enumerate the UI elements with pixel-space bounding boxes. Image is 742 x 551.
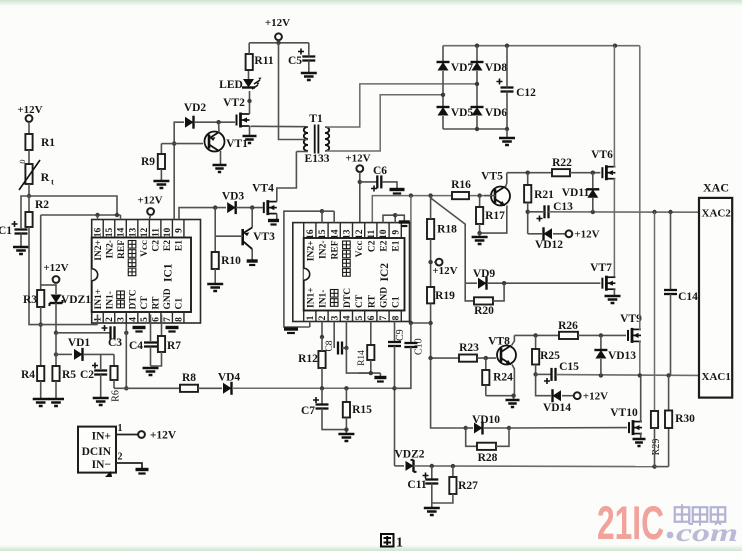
node <box>533 333 537 337</box>
svg-text:VD13: VD13 <box>608 350 636 362</box>
capacitor C13 <box>543 205 545 218</box>
svg-text:CT: CT <box>140 296 150 310</box>
svg-text:C14: C14 <box>678 291 698 303</box>
wire <box>20 234 22 247</box>
wire VDZ1 to R5 <box>55 333 57 366</box>
svg-text:R4: R4 <box>21 369 35 381</box>
svg-text:14: 14 <box>117 228 127 238</box>
svg-text:IN1-: IN1- <box>319 290 329 308</box>
resistor R1 <box>25 134 32 150</box>
svg-text:VT10: VT10 <box>610 407 638 419</box>
svg-text:Vᴄᴄ: Vᴄᴄ <box>355 240 365 257</box>
wire VD14 branch <box>536 374 551 395</box>
wire VT6 source <box>614 179 615 277</box>
svg-text:R29: R29 <box>651 439 662 456</box>
svg-text:IN2-: IN2- <box>319 241 329 259</box>
wire <box>509 427 627 429</box>
wire C10 drop <box>410 196 412 323</box>
svg-text:VD4: VD4 <box>218 372 241 384</box>
svg-text:REF: REF <box>117 240 127 259</box>
resistor R3 <box>37 290 44 307</box>
wire <box>570 172 600 174</box>
wire <box>654 428 656 467</box>
wire VT1 collector <box>218 122 220 132</box>
svg-text:VT3: VT3 <box>253 231 275 243</box>
wire R17 top <box>479 196 481 207</box>
wire <box>308 61 310 73</box>
svg-text:+12V: +12V <box>265 17 290 29</box>
node <box>250 205 254 209</box>
wire <box>55 381 57 398</box>
node <box>652 464 656 468</box>
wire VT6 drain <box>614 46 615 167</box>
resistor R16 <box>452 192 469 199</box>
wire <box>40 307 42 366</box>
wire <box>485 385 487 396</box>
wire <box>150 315 152 342</box>
op-amp IC2 body <box>304 238 405 311</box>
diode VD8 <box>472 62 483 71</box>
svg-text:8: 8 <box>174 317 184 322</box>
wire R8 bus <box>114 387 180 389</box>
wire <box>430 239 432 287</box>
wire VT10 gate line <box>431 358 464 428</box>
resistor R18 <box>427 219 434 239</box>
svg-text:R14: R14 <box>357 350 367 366</box>
svg-text:15: 15 <box>318 229 328 239</box>
svg-text:R24: R24 <box>493 372 513 384</box>
transistor VT1 <box>205 132 225 152</box>
wire <box>536 373 551 375</box>
svg-text:R21: R21 <box>534 189 554 201</box>
wire IC1 pin9 riser to VD3 <box>179 208 226 220</box>
wire <box>150 347 152 367</box>
ground <box>472 237 488 244</box>
diode VD11 <box>592 173 594 188</box>
diode VD13 <box>600 335 602 349</box>
transistor VT6 <box>601 167 603 178</box>
svg-text:C10: C10 <box>414 338 425 355</box>
wire C2 branch <box>100 354 102 369</box>
svg-text:VD12: VD12 <box>535 239 563 251</box>
wire VT1 base <box>174 143 203 145</box>
svg-text:VD2: VD2 <box>184 102 207 114</box>
resistor R14 <box>367 345 374 360</box>
svg-text:+12V: +12V <box>150 430 177 442</box>
node <box>95 213 99 217</box>
capacitor C15 <box>550 368 552 381</box>
svg-text:IN+: IN+ <box>92 431 111 443</box>
svg-text:R16: R16 <box>451 179 471 191</box>
watermark dot <box>667 532 674 539</box>
svg-text:R23: R23 <box>459 342 479 354</box>
svg-text:C11: C11 <box>407 479 426 491</box>
wire <box>431 484 433 508</box>
svg-text:9: 9 <box>174 228 184 233</box>
svg-text:VD9: VD9 <box>473 268 496 280</box>
wire <box>248 43 250 54</box>
resistor R22 <box>552 169 570 176</box>
svg-text:16: 16 <box>94 228 104 238</box>
svg-text:DCIN: DCIN <box>82 446 112 458</box>
svg-text:DTC: DTC <box>343 288 353 308</box>
wire R12 stub <box>321 322 323 338</box>
svg-text:VD14: VD14 <box>543 402 571 414</box>
wire C10 link <box>411 322 431 324</box>
wire <box>40 381 42 398</box>
wire <box>506 46 508 88</box>
wire <box>236 207 263 209</box>
node <box>464 426 468 430</box>
ground <box>143 368 159 375</box>
wire <box>322 409 346 430</box>
resistor R23 <box>459 355 477 362</box>
svg-text:IC1: IC1 <box>163 263 175 282</box>
resistor R7 <box>158 336 165 352</box>
wire <box>359 172 361 223</box>
svg-text:11: 11 <box>151 228 161 237</box>
node <box>393 213 397 217</box>
svg-text:IN2+: IN2+ <box>306 241 316 262</box>
diode VD6 <box>472 107 483 116</box>
node <box>441 93 445 97</box>
node <box>638 373 642 377</box>
wire diagonal to VD9 branch <box>431 196 466 284</box>
svg-text:9: 9 <box>391 230 401 235</box>
svg-text:VT7: VT7 <box>590 262 612 274</box>
node <box>320 335 324 339</box>
svg-text:VD6: VD6 <box>485 107 508 119</box>
node <box>39 322 43 326</box>
svg-text:10: 10 <box>379 229 389 239</box>
node <box>451 464 455 468</box>
node +12V (VD12) <box>566 230 573 237</box>
svg-text:C9: C9 <box>395 329 406 341</box>
wire VT7 source <box>614 289 615 295</box>
wire <box>395 215 404 221</box>
wire VT5 collector <box>506 173 507 187</box>
svg-text:E133: E133 <box>305 153 330 165</box>
wire VD1 line <box>56 353 72 355</box>
resistor R19 <box>427 287 434 303</box>
wire <box>342 347 346 349</box>
wire <box>160 169 162 180</box>
node <box>599 333 603 337</box>
wire <box>434 261 436 263</box>
wire VT3 base <box>215 235 243 237</box>
svg-text:C2: C2 <box>152 240 162 252</box>
svg-text:C1: C1 <box>0 225 12 237</box>
wire <box>506 129 508 137</box>
wire <box>149 215 150 220</box>
node <box>591 171 595 175</box>
svg-text:R22: R22 <box>552 157 572 169</box>
wire VT3 collector drop <box>251 208 253 228</box>
ground (IC1 pins 4-5) <box>133 326 146 329</box>
node A <box>27 194 31 198</box>
svg-text:GND: GND <box>163 288 173 309</box>
resistor R28 <box>477 443 496 450</box>
node <box>477 193 481 197</box>
node <box>213 205 217 209</box>
resistor R2 <box>25 212 32 227</box>
node <box>475 82 479 86</box>
svg-text:R10: R10 <box>221 255 241 267</box>
wire <box>55 283 57 294</box>
svg-text:E2: E2 <box>380 240 390 251</box>
wire R30 stub <box>668 375 670 410</box>
transistor VT10 <box>628 422 630 433</box>
ground <box>247 259 258 262</box>
svg-text:3: 3 <box>330 315 340 320</box>
node <box>344 427 348 431</box>
svg-text:R9: R9 <box>141 156 155 168</box>
wire VD12 branch <box>528 233 542 235</box>
svg-text:R17: R17 <box>485 210 505 222</box>
wire +12V collector bus <box>372 196 495 223</box>
wire <box>160 144 162 154</box>
wire R28 branch <box>466 428 477 446</box>
wire E2 riser <box>174 122 184 219</box>
svg-text:VD3: VD3 <box>222 191 245 203</box>
wire <box>442 71 444 107</box>
wire <box>528 211 545 213</box>
wire T1 primary top <box>306 126 308 128</box>
wire VT10 source <box>641 434 642 438</box>
wire <box>214 269 216 283</box>
op-amp IC1 body <box>92 238 191 313</box>
svg-text:R2: R2 <box>35 199 49 211</box>
svg-text:R25: R25 <box>540 350 560 362</box>
capacitor C5 <box>298 49 304 55</box>
svg-text:7: 7 <box>379 315 389 320</box>
wire <box>321 368 323 388</box>
wire <box>345 322 347 349</box>
ground <box>213 165 227 172</box>
wire VT3 emitter <box>251 249 253 260</box>
wire bottom bus <box>414 465 655 468</box>
resistor R17 <box>476 207 483 224</box>
svg-text:com: com <box>676 520 738 547</box>
svg-text:13: 13 <box>343 229 353 239</box>
node <box>502 281 506 285</box>
wire R24 branch <box>485 358 487 370</box>
node <box>477 231 481 235</box>
wire C9 node to VDZ2 <box>394 388 396 466</box>
wire <box>113 380 115 388</box>
diode VD4 <box>223 383 232 394</box>
wire <box>655 466 669 468</box>
node <box>344 386 348 390</box>
wire R15 branch <box>345 388 347 402</box>
wire <box>345 418 347 434</box>
node <box>613 44 617 48</box>
node <box>172 141 176 145</box>
node <box>124 386 128 390</box>
wire <box>308 43 310 57</box>
wire <box>161 315 163 337</box>
wire T1 center tap to +12V <box>279 43 309 140</box>
wire <box>430 196 432 219</box>
svg-text:+12V: +12V <box>345 153 370 165</box>
node <box>591 210 595 214</box>
svg-text:12: 12 <box>355 229 365 239</box>
wire R2 to pin1 line <box>29 227 31 325</box>
svg-text:REF: REF <box>331 240 341 259</box>
svg-text:1: 1 <box>396 536 403 551</box>
ground <box>338 434 354 441</box>
transistor VT9 <box>627 330 629 341</box>
svg-text:VT2: VT2 <box>223 97 245 109</box>
node <box>428 193 432 197</box>
zener diode VDZ2 <box>395 465 405 467</box>
svg-text:6: 6 <box>367 315 377 320</box>
svg-text:R20: R20 <box>474 305 494 317</box>
node <box>358 180 362 184</box>
wire <box>151 352 162 366</box>
wire <box>527 203 529 234</box>
svg-text:Vᴄᴄ: Vᴄᴄ <box>140 240 150 257</box>
wire VT5 base <box>484 195 496 197</box>
wire IC2 feedback loop <box>284 211 322 327</box>
svg-text:R11: R11 <box>254 55 273 67</box>
svg-text:RT: RT <box>367 294 377 308</box>
svg-text:+12V: +12V <box>432 265 457 277</box>
node +12V (R18/R19) <box>436 259 443 266</box>
wire <box>535 365 537 375</box>
svg-text:+12V: +12V <box>17 104 42 116</box>
node <box>392 386 396 390</box>
resistor R4 <box>37 366 44 381</box>
resistor R11 <box>246 54 253 70</box>
svg-text:21IC: 21IC <box>597 496 664 549</box>
resistor R27 <box>449 477 456 494</box>
svg-text:2: 2 <box>118 452 123 463</box>
svg-text:E1: E1 <box>392 240 402 251</box>
ground <box>499 138 515 145</box>
diode VD14 <box>553 390 562 401</box>
wire R20 branch <box>465 283 474 301</box>
node +12V (VD14) <box>574 392 581 399</box>
svg-text:R27: R27 <box>458 480 478 492</box>
wire <box>161 143 174 145</box>
node <box>369 371 373 375</box>
diode VD5 <box>438 107 449 116</box>
wire <box>322 210 334 212</box>
svg-text:C1: C1 <box>392 296 402 308</box>
diode VD1 <box>74 349 83 360</box>
ground <box>48 399 64 406</box>
svg-text:GND: GND <box>380 287 390 308</box>
wire bridge top rail <box>443 45 640 47</box>
wire <box>432 494 453 503</box>
wire <box>278 40 280 43</box>
svg-text:E2: E2 <box>163 240 173 251</box>
svg-text:XAC1: XAC1 <box>702 371 731 383</box>
capacitor C10 <box>410 323 412 342</box>
diode VD7 <box>438 62 449 71</box>
svg-text:C8: C8 <box>325 340 335 351</box>
svg-text:C4: C4 <box>129 340 143 352</box>
svg-text:C6: C6 <box>373 165 387 177</box>
node <box>526 210 530 214</box>
resistor R15 <box>343 402 350 418</box>
wire <box>28 150 30 164</box>
svg-text:VD11: VD11 <box>562 187 590 199</box>
wire <box>321 337 323 351</box>
capacitor C8 <box>337 342 339 355</box>
node <box>428 321 432 325</box>
svg-text:5: 5 <box>140 317 150 322</box>
wire <box>476 46 478 61</box>
wire R27 branch <box>452 466 454 477</box>
wire <box>346 348 380 373</box>
svg-text:5: 5 <box>355 315 365 320</box>
node <box>409 321 413 325</box>
wire <box>394 346 396 388</box>
resistor R5 <box>52 366 59 381</box>
wire R6 branch <box>113 354 115 366</box>
op-amp IC2 notch <box>304 268 310 280</box>
wire <box>496 428 509 446</box>
diode VD10 <box>466 427 473 429</box>
wire VT8 collector <box>512 335 515 345</box>
svg-text:7: 7 <box>163 317 173 322</box>
wire VT10 drain <box>641 375 642 421</box>
node <box>428 356 432 360</box>
zener diode VDZ1 <box>50 295 63 307</box>
resistor R25 <box>532 349 539 365</box>
node <box>505 127 509 131</box>
ground (IC1 pins 7-8) <box>166 326 179 329</box>
wire VT2 source to ground <box>249 126 251 135</box>
resistor R6 <box>110 366 117 380</box>
wire R21 top <box>527 173 529 185</box>
wire <box>476 71 478 107</box>
capacitor C11 <box>431 466 433 479</box>
wire IC2 E2/E1 tie <box>383 215 395 222</box>
wire <box>120 215 122 220</box>
wire <box>476 116 478 129</box>
node <box>428 260 432 264</box>
svg-text:R18: R18 <box>437 224 457 236</box>
diode VD12 <box>544 228 553 239</box>
DCIN marker <box>105 471 112 477</box>
svg-text:VT9: VT9 <box>620 313 642 325</box>
resistor R24 <box>482 370 489 385</box>
diode VD3 <box>227 202 236 213</box>
wire VT8 emitter <box>486 365 515 396</box>
svg-text:RT: RT <box>152 296 162 310</box>
wire <box>55 303 57 333</box>
svg-text:C5: C5 <box>288 55 302 67</box>
wire IC1 top bus <box>41 214 121 216</box>
capacitor C3 <box>109 326 111 339</box>
wire VT9 drain <box>640 46 641 330</box>
svg-text:C2: C2 <box>367 240 377 252</box>
svg-text:1: 1 <box>118 423 123 434</box>
capacitor C6 <box>376 175 378 188</box>
wire <box>553 233 566 235</box>
wire DTC node down to R8 bus <box>125 333 127 389</box>
wire VD4 bus to IC2 region <box>232 387 411 389</box>
wire <box>479 224 481 233</box>
wire T1 secondary top <box>325 84 477 127</box>
node <box>276 41 280 45</box>
svg-text:VT1: VT1 <box>226 138 248 150</box>
node <box>320 209 324 213</box>
svg-text:IN1+: IN1+ <box>94 289 104 310</box>
